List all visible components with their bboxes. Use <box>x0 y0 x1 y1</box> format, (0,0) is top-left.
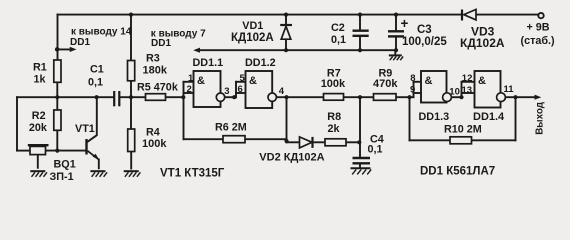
svg-text:9: 9 <box>410 85 415 96</box>
wire mid bus left section <box>17 96 113 98</box>
svg-text:DD1 К561ЛА7: DD1 К561ЛА7 <box>420 166 495 178</box>
resistor R6 <box>223 136 245 143</box>
wire R6 bottom line left <box>184 138 224 140</box>
svg-text:&: & <box>478 75 486 87</box>
svg-text:100k: 100k <box>321 78 346 90</box>
svg-text:&: & <box>425 75 433 87</box>
wire top rail right segment after VD3 <box>476 14 538 16</box>
gate DD1.1 <box>194 71 225 107</box>
svg-text:R8: R8 <box>327 111 341 123</box>
svg-text:0,1: 0,1 <box>331 34 346 46</box>
svg-text:DD1.3: DD1.3 <box>419 111 450 123</box>
wire pin 2 stub <box>184 92 195 94</box>
resistor R7 <box>324 94 344 101</box>
wire VD1 top lead <box>285 15 287 24</box>
wire pin 11 drop <box>515 97 517 140</box>
resistor R5 <box>146 94 166 101</box>
junction node R5/pins1-2 <box>181 95 185 99</box>
wire C2 top lead <box>359 15 361 30</box>
wire R10 bottom line left <box>410 139 451 141</box>
svg-text:8: 8 <box>410 73 415 84</box>
svg-text:0,1: 0,1 <box>368 144 383 156</box>
junction node R7/R9/C4 top <box>358 95 362 99</box>
wire DD1.4 input bracket <box>461 82 463 97</box>
wire R3 bottom to R4 top <box>130 81 132 129</box>
arrow to pin 14 DD1 <box>70 47 77 52</box>
wire left edge vertical <box>16 97 18 150</box>
gate DD1.4 <box>475 71 506 108</box>
svg-text:+ 9В: + 9В <box>527 22 550 34</box>
svg-text:&: & <box>249 75 257 87</box>
wire top rail left segment <box>58 14 463 16</box>
junction node pin3/pins5-6 <box>232 95 236 99</box>
wire pin 12 stub <box>462 81 475 83</box>
svg-text:VT1 КТ315Г: VT1 КТ315Г <box>160 168 225 180</box>
wire pin 1 stub <box>184 81 195 83</box>
wire DD1.3 input bracket <box>413 82 415 97</box>
junction node C2 gnd line <box>358 48 362 52</box>
svg-text:R1: R1 <box>33 62 47 74</box>
wire R10 bottom line right <box>472 139 516 141</box>
terminal +9V <box>538 13 543 18</box>
junction node VD1 rail <box>284 13 288 17</box>
wire R9 right to DD1.3 bracket <box>396 96 414 98</box>
svg-text:12: 12 <box>462 73 473 84</box>
svg-text:C2: C2 <box>331 22 345 34</box>
svg-text:470k: 470k <box>373 78 398 90</box>
svg-text:R5 470k: R5 470k <box>137 82 179 94</box>
svg-text:+: + <box>401 16 409 31</box>
wire pin 8 stub <box>414 81 422 83</box>
wire DD1.2 input bracket <box>235 82 237 97</box>
wire ground line (pin 7) <box>200 49 396 51</box>
svg-text:4: 4 <box>279 86 285 97</box>
junction node VD1 gnd line <box>284 48 288 52</box>
svg-text:180k: 180k <box>143 65 168 77</box>
svg-text:КД102А: КД102А <box>460 36 505 50</box>
wire DD1.4 output to arrow <box>505 96 534 98</box>
junction node pin4 bottom <box>284 139 288 143</box>
wire DD1.1 input bracket and R6 drop <box>183 82 185 139</box>
svg-text:VT1: VT1 <box>75 123 95 135</box>
svg-text:1k: 1k <box>34 74 47 86</box>
svg-text:6: 6 <box>238 84 243 95</box>
svg-text:к выводу 14: к выводу 14 <box>71 27 132 38</box>
svg-text:13: 13 <box>462 85 473 96</box>
wire R2 bottom lead <box>56 130 58 150</box>
wire C1 to R5 <box>120 96 145 98</box>
resistor R4 <box>128 129 135 152</box>
wire R3 top lead <box>130 15 132 61</box>
junction node pin11/R10 <box>513 95 517 99</box>
svg-text:100k: 100k <box>142 138 167 150</box>
wire DD1.1 output to DD1.2 bracket <box>225 96 236 98</box>
svg-text:R6 2M: R6 2M <box>215 122 247 134</box>
wire pin 13 stub <box>462 92 475 94</box>
junction node C3 gnd line <box>394 48 398 52</box>
wire bottom line to VD2 <box>287 141 300 143</box>
wire R10 drop <box>409 97 411 140</box>
wire left vertical from rail to R1 <box>57 15 59 62</box>
ground C3 line <box>389 55 403 60</box>
svg-text:ЗП-1: ЗП-1 <box>50 171 74 183</box>
svg-text:BQ1: BQ1 <box>54 159 76 171</box>
svg-text:Выход: Выход <box>534 101 545 135</box>
junction node C3 rail <box>394 13 398 17</box>
svg-text:3: 3 <box>224 86 229 97</box>
svg-text:11: 11 <box>504 84 515 95</box>
wire R7 to R9 segment <box>344 96 374 98</box>
svg-text:DD1.1: DD1.1 <box>193 57 224 69</box>
wire pin 4 node drop to bottom line <box>286 97 288 142</box>
resistor R2 <box>54 110 61 130</box>
wire R5 right to node 1-2 <box>166 96 184 98</box>
capacitor C3 polarized <box>388 31 404 36</box>
svg-text:2: 2 <box>187 84 192 95</box>
junction node pin4 <box>284 95 288 99</box>
wire C3 ground stub <box>394 50 396 55</box>
svg-text:R2: R2 <box>32 110 46 122</box>
junction node pins12-13 <box>459 95 463 99</box>
svg-text:VD2 КД102А: VD2 КД102А <box>259 152 324 164</box>
svg-text:DD1.4: DD1.4 <box>473 111 505 123</box>
wire VD1 bottom lead <box>285 39 287 50</box>
wire VT1 collector <box>88 97 97 142</box>
ground VT1 emitter <box>90 171 107 177</box>
svg-text:100,0/25: 100,0/25 <box>402 36 447 48</box>
svg-text:R10 2M: R10 2M <box>444 124 482 136</box>
svg-text:5: 5 <box>240 73 246 84</box>
wire VT1 emitter vertical <box>98 159 100 168</box>
capacitor C1 <box>114 91 119 106</box>
transistor VT1 <box>85 139 99 160</box>
svg-text:КД102А: КД102А <box>231 32 274 44</box>
resistor R1 <box>54 60 61 82</box>
junction node C1/R3 rail <box>129 95 133 99</box>
svg-text:C3: C3 <box>417 24 432 36</box>
svg-text:VD1: VD1 <box>242 20 263 32</box>
svg-text:&: & <box>197 75 205 87</box>
wire bottom left to BQ1 <box>17 150 30 152</box>
junction node R2/BQ1 <box>55 149 59 153</box>
gate DD1.3 <box>421 71 451 103</box>
svg-text:(стаб.): (стаб.) <box>521 35 556 47</box>
svg-text:DD1.2: DD1.2 <box>245 57 276 69</box>
svg-text:R4: R4 <box>146 127 160 139</box>
wire DD1.2 output to R7 <box>276 96 323 98</box>
svg-text:20k: 20k <box>29 122 48 134</box>
arrow output <box>535 95 542 100</box>
junction node R9/R10 <box>407 95 411 99</box>
junction node R8/C4 <box>357 140 361 144</box>
wire C3 bottom lead <box>395 38 397 51</box>
piezo BQ1 <box>28 144 49 155</box>
wire R1 bottom lead <box>56 82 58 97</box>
diode VD3 <box>462 9 476 20</box>
svg-text:0,1: 0,1 <box>88 77 103 89</box>
wire BQ1 to VT1 base <box>46 150 86 152</box>
svg-text:C1: C1 <box>90 64 104 76</box>
wire pin 5 stub <box>236 81 246 83</box>
wire node B vertical to C4 <box>359 97 361 157</box>
ground BQ1 <box>30 171 47 177</box>
diode VD1 <box>280 25 292 39</box>
wire pin 6 stub <box>236 92 246 94</box>
resistor R9 <box>374 94 397 101</box>
svg-text:DD1: DD1 <box>70 37 90 48</box>
capacitor C4 <box>353 158 371 163</box>
diode VD2 <box>300 137 313 148</box>
capacitor C2 <box>353 31 369 36</box>
wire DD1.3 output to DD1.4 bracket <box>451 96 461 98</box>
resistor R8 <box>325 139 346 146</box>
wire R2 top lead <box>56 97 58 109</box>
junction node C2 rail <box>358 13 362 17</box>
arrow to pin 7 DD1 <box>193 48 200 53</box>
svg-text:1: 1 <box>188 73 194 84</box>
resistor R10 <box>450 137 472 144</box>
wire VD2 to R8 <box>315 141 326 143</box>
wire R4 bottom lead <box>130 152 132 169</box>
junction node collector <box>95 95 99 99</box>
ground C4 <box>351 168 372 174</box>
wire R6 bottom line right <box>245 138 287 140</box>
svg-text:DD1: DD1 <box>151 38 171 49</box>
junction node R3 rail top <box>129 13 133 17</box>
junction node R1/R2 <box>55 95 59 99</box>
ground R4 <box>124 171 141 177</box>
wire C2 bottom lead <box>359 37 361 50</box>
wire arrow to pin 14 <box>58 48 73 50</box>
svg-text:10: 10 <box>449 86 460 97</box>
wire C3 top lead <box>395 15 397 31</box>
wire BQ1 bottom lead <box>37 155 39 168</box>
junction node R1 top arrow <box>55 47 60 52</box>
svg-text:2k: 2k <box>328 123 341 135</box>
gate DD1.2 <box>246 71 277 108</box>
wire R8 to C4 node <box>346 141 360 143</box>
svg-text:R3: R3 <box>146 53 160 65</box>
resistor R3 <box>128 61 135 81</box>
wire pin 9 stub <box>414 92 422 94</box>
wire C4 bottom stub <box>359 165 361 168</box>
